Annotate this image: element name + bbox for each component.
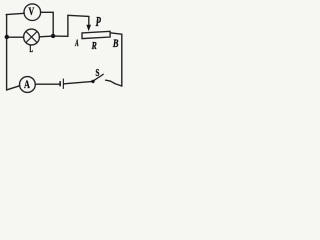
wire rheostat B to right corner [110,33,122,34]
svg-text:A: A [74,37,78,48]
wire top-left horizontal [6,13,24,14]
rheostat R body [82,31,110,38]
junction node left [5,35,9,39]
wire riser up [67,15,69,36]
svg-text:B: B [112,38,118,51]
wire lamp left [7,36,24,38]
rheostat wiper P arrow [86,15,101,31]
battery cell [59,79,63,89]
svg-text:L: L [29,42,33,55]
voltmeter V [24,4,41,21]
wire junction to riser [53,35,68,37]
svg-text:V: V [28,6,34,19]
wire ammeter to battery [35,83,59,85]
switch S [91,67,103,83]
wire battery to switch [64,82,91,84]
wire voltmeter right [41,11,54,13]
lamp L [24,29,40,55]
wire top to wiper [68,15,89,16]
ammeter A [20,77,36,93]
wire bottom left corner to ammeter [7,86,20,90]
wire voltmeter branch down [52,12,54,36]
svg-text:R: R [91,41,97,52]
wire lamp right [39,35,53,38]
svg-text:S: S [95,67,99,79]
wire right vertical [121,34,123,86]
svg-text:A: A [24,79,30,92]
wire left vertical [6,15,8,91]
svg-text:P: P [96,15,101,29]
wire bottom right to switch [106,80,122,86]
junction node right of lamp [51,34,55,38]
